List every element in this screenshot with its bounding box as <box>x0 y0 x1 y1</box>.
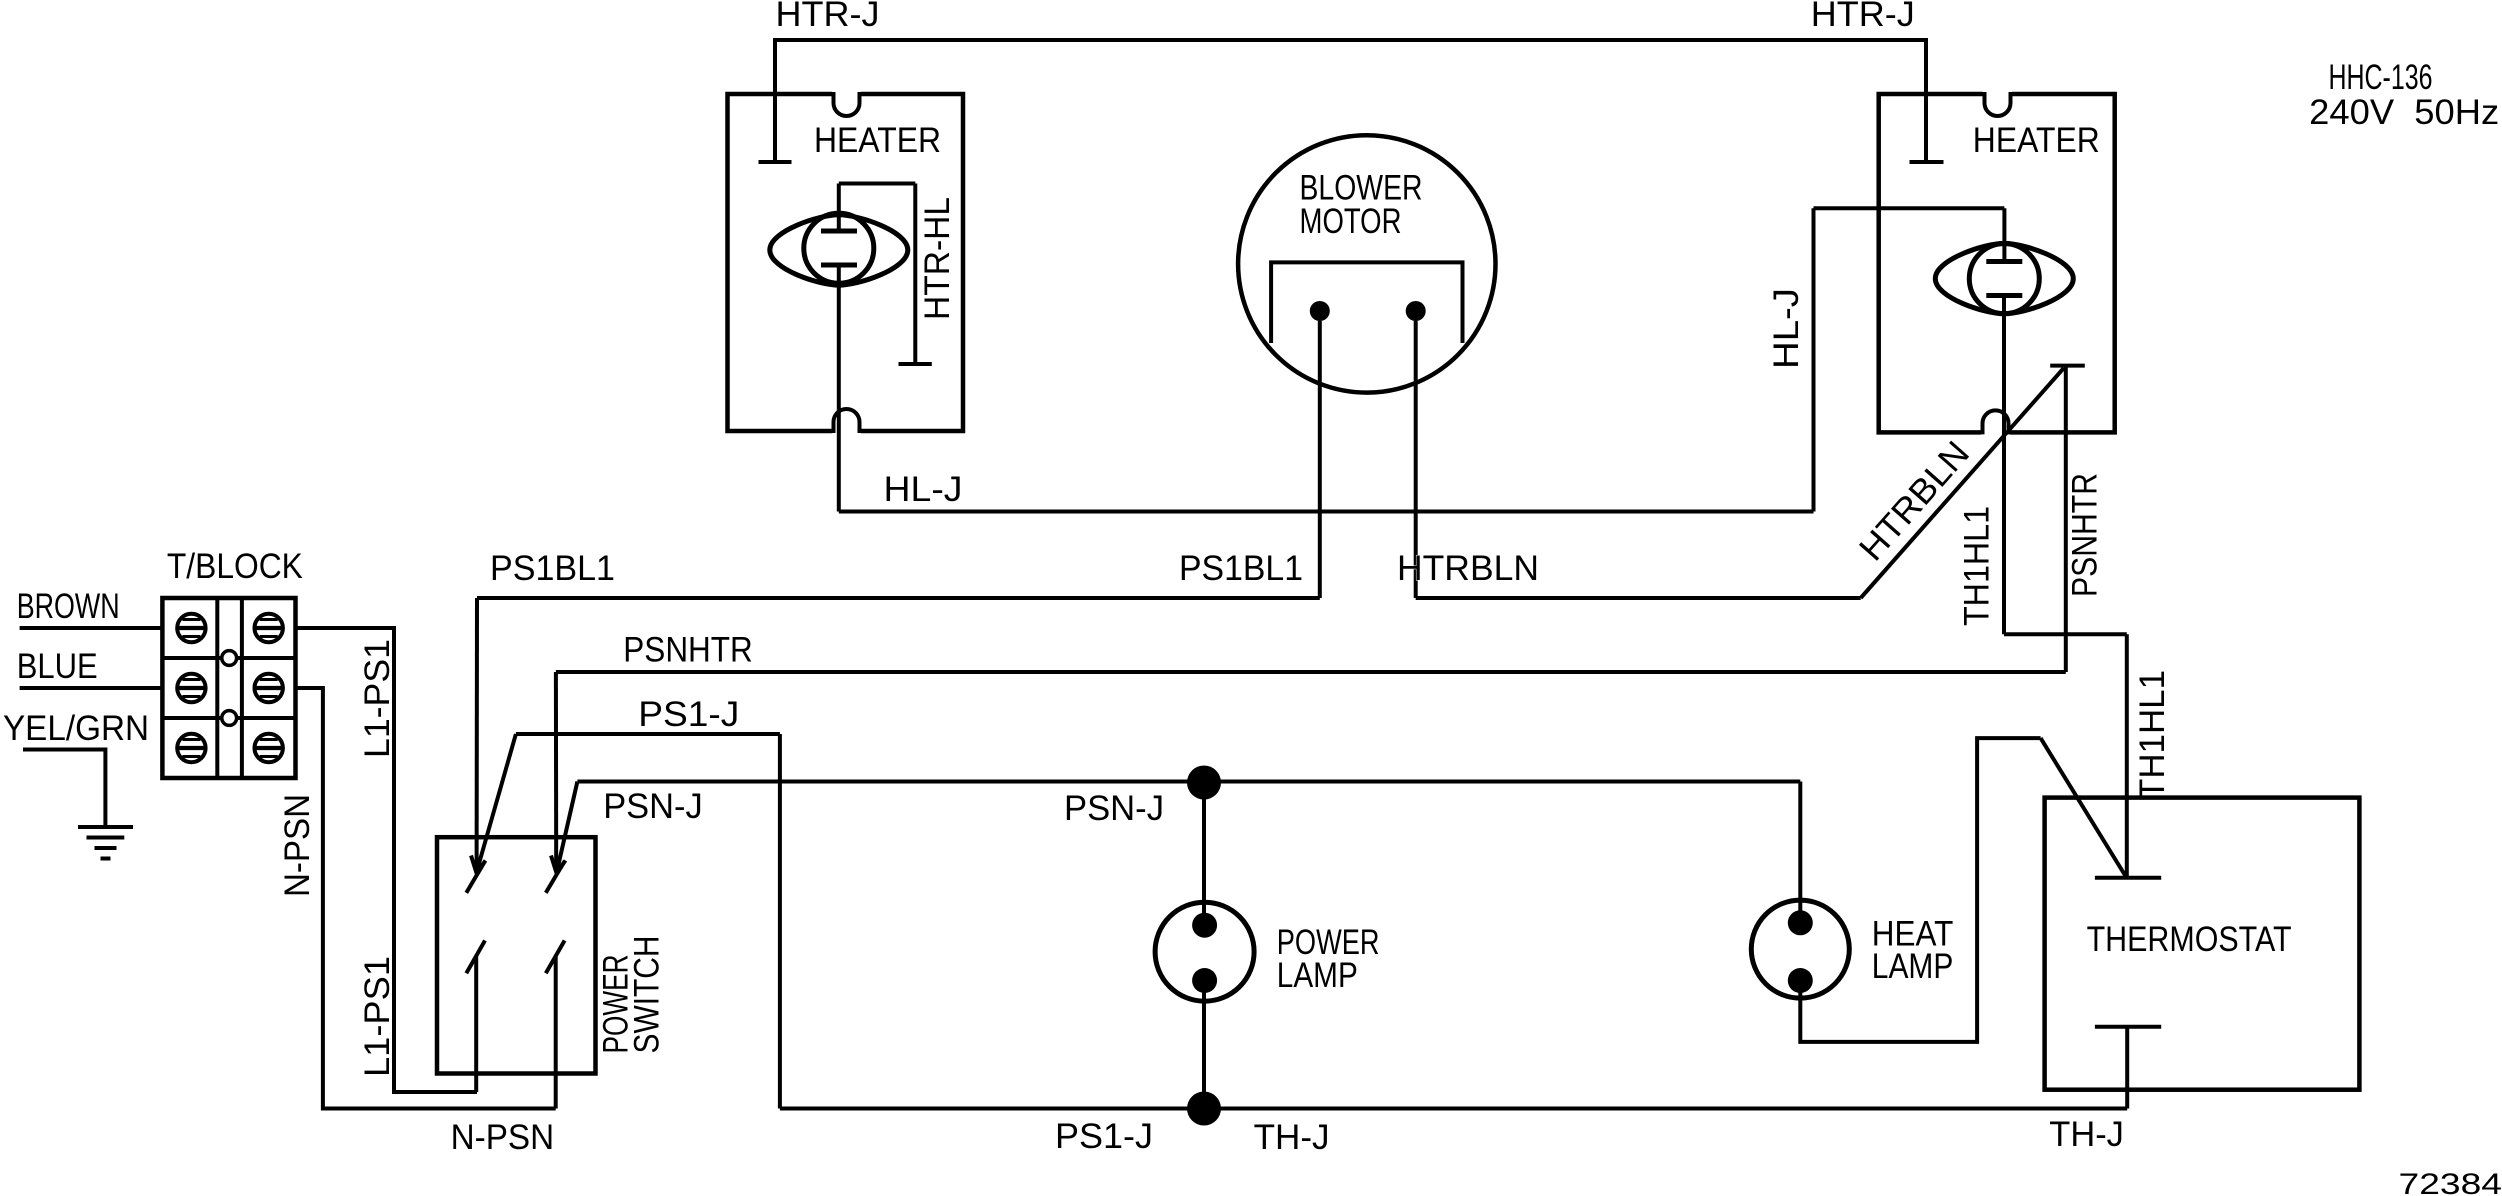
svg-text:L1-PS1: L1-PS1 <box>358 639 397 758</box>
svg-text:PSNHTR: PSNHTR <box>623 631 753 670</box>
svg-text:PS1BL1: PS1BL1 <box>490 549 615 588</box>
svg-text:LAMP: LAMP <box>1872 947 1954 986</box>
svg-text:T/BLOCK: T/BLOCK <box>167 547 303 586</box>
svg-text:HEATER: HEATER <box>814 121 941 160</box>
svg-text:HHC-136: HHC-136 <box>2329 58 2433 97</box>
svg-text:HTR-J: HTR-J <box>776 0 880 34</box>
svg-text:72384: 72384 <box>2399 1168 2502 1196</box>
svg-text:MOTOR: MOTOR <box>1300 202 1402 241</box>
svg-text:THERMOSTAT: THERMOSTAT <box>2087 920 2292 959</box>
svg-text:HL-J: HL-J <box>884 470 963 509</box>
svg-text:HTR-J: HTR-J <box>1811 0 1915 34</box>
svg-text:HTR-HL: HTR-HL <box>918 197 957 320</box>
svg-text:PSN-J: PSN-J <box>1064 789 1164 828</box>
svg-text:240V 50Hz: 240V 50Hz <box>2309 93 2499 132</box>
svg-text:HEATER: HEATER <box>1973 121 2100 160</box>
svg-text:BROWN: BROWN <box>17 587 120 626</box>
svg-text:N-PSN: N-PSN <box>451 1118 554 1157</box>
svg-text:HL-J: HL-J <box>1767 288 1806 369</box>
svg-text:L1-PS1: L1-PS1 <box>358 956 397 1077</box>
svg-text:PS1BL1: PS1BL1 <box>1179 549 1303 588</box>
svg-text:TH-J: TH-J <box>1254 1118 1330 1157</box>
svg-text:TH1HL1: TH1HL1 <box>1957 506 1996 626</box>
svg-text:TH-J: TH-J <box>2049 1115 2124 1154</box>
svg-text:HTRBLN: HTRBLN <box>1397 549 1539 588</box>
svg-text:PS1-J: PS1-J <box>1055 1117 1153 1156</box>
svg-text:N-PSN: N-PSN <box>278 794 317 897</box>
svg-text:BLUE: BLUE <box>17 647 98 686</box>
svg-text:PSN-J: PSN-J <box>603 787 703 826</box>
svg-text:TH1HL1: TH1HL1 <box>2133 670 2172 800</box>
svg-text:SWITCH: SWITCH <box>628 936 667 1054</box>
svg-text:PS1-J: PS1-J <box>638 695 739 734</box>
svg-text:YEL/GRN: YEL/GRN <box>3 709 149 748</box>
svg-text:PSNHTR: PSNHTR <box>2065 473 2104 597</box>
svg-text:LAMP: LAMP <box>1277 956 1358 995</box>
